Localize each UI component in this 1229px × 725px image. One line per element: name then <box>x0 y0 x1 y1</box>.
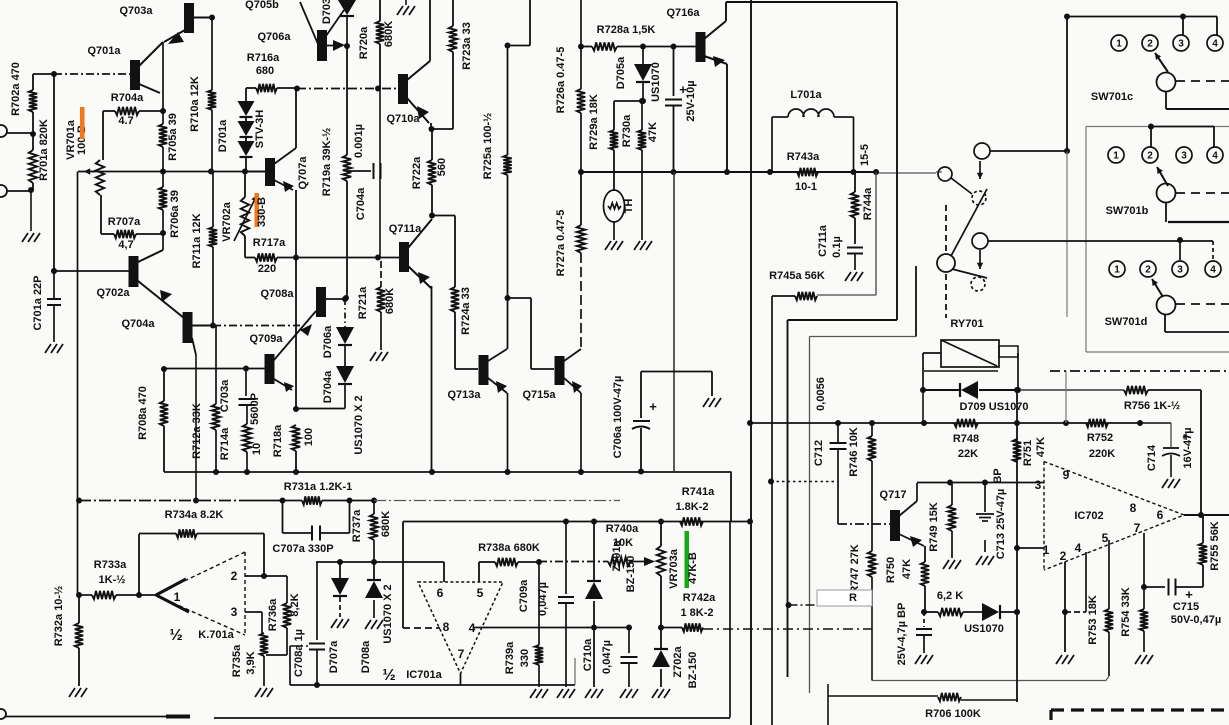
svg-text:D707a: D707a <box>328 640 340 673</box>
wire Q717 emitter <box>899 534 924 546</box>
svg-text:10K: 10K <box>613 537 633 549</box>
wire output <box>1198 512 1204 518</box>
svg-text:R705a 39: R705a 39 <box>167 113 179 161</box>
wire Q713a base <box>455 368 478 370</box>
svg-text:R736a: R736a <box>267 598 279 631</box>
wire pin8 dash <box>403 627 440 629</box>
wire SW701c top bracket <box>1067 16 1183 18</box>
svg-text:47K: 47K <box>901 559 913 579</box>
resistor R739a 330 <box>538 562 540 645</box>
svg-text:6: 6 <box>437 586 444 600</box>
resistor R751 47K <box>1013 439 1021 462</box>
resistor R753 18K <box>1108 540 1110 609</box>
zener Z702a BZ-150 <box>660 522 662 547</box>
wire TH to ground <box>613 222 615 240</box>
wire Q716a base <box>643 46 696 48</box>
resistor R754 33K <box>1143 533 1145 609</box>
wire Q707a emitter vertical <box>295 258 297 410</box>
wire R716a left corner <box>245 88 247 101</box>
svg-text:R753 18K: R753 18K <box>1087 595 1099 645</box>
svg-text:680: 680 <box>256 65 274 77</box>
wire light right edge <box>574 658 576 685</box>
wire Q717 collector <box>899 501 917 516</box>
svg-text:4: 4 <box>1075 541 1082 555</box>
svg-text:R742a: R742a <box>683 592 716 604</box>
svg-text:C707a 330P: C707a 330P <box>272 543 333 555</box>
arrow SW701b <box>1157 167 1168 186</box>
wire to ground <box>30 191 32 231</box>
svg-text:R727a 0.47-5: R727a 0.47-5 <box>555 210 567 277</box>
svg-text:R750: R750 <box>885 557 897 583</box>
wire Q713a emitter <box>488 378 507 393</box>
svg-text:R737a: R737a <box>351 509 363 542</box>
svg-text:C713 25V-47µ: C713 25V-47µ <box>995 489 1007 560</box>
svg-text:0.001µ: 0.001µ <box>353 124 365 158</box>
svg-text:SW701d: SW701d <box>1105 316 1148 328</box>
svg-text:R710a 12K: R710a 12K <box>189 76 201 132</box>
svg-text:BZ-150: BZ-150 <box>687 652 699 689</box>
potentiometer VR702a 330-B <box>241 197 249 236</box>
svg-text:US1070 X 2: US1070 X 2 <box>353 395 365 454</box>
ground <box>45 344 51 353</box>
wire Q703a collector <box>193 17 212 19</box>
contact 4 SW701b <box>1207 147 1223 163</box>
capacitor C710a 0.047u <box>628 628 630 654</box>
svg-text:R734a 8.2K: R734a 8.2K <box>165 509 224 521</box>
svg-text:D709 US1070: D709 US1070 <box>959 401 1028 413</box>
ground <box>69 688 75 697</box>
svg-text:10-1: 10-1 <box>795 181 817 193</box>
op-amp pin4 wire y=627 <box>473 627 629 629</box>
resistor R710a 12K <box>208 90 216 110</box>
svg-text:5: 5 <box>477 586 484 600</box>
svg-text:2: 2 <box>1060 549 1067 563</box>
wire Q704a emitter <box>192 338 196 355</box>
svg-text:Q702a: Q702a <box>96 287 130 299</box>
svg-text:R738a 680K: R738a 680K <box>478 542 540 554</box>
resistor R748 22K <box>954 419 978 427</box>
svg-text:3: 3 <box>231 605 238 619</box>
svg-text:C710a: C710a <box>582 638 594 671</box>
svg-text:SW701b: SW701b <box>1106 205 1149 217</box>
svg-text:1: 1 <box>174 590 181 604</box>
diode D705a US1070 <box>642 47 644 65</box>
wire R706a bottom <box>162 210 164 250</box>
svg-text:Q708a: Q708a <box>260 288 294 300</box>
svg-text:R721a: R721a <box>357 286 369 319</box>
svg-text:Q710a: Q710a <box>386 113 420 125</box>
wire pin7 <box>460 674 462 686</box>
ground <box>943 560 949 569</box>
capacitor C708a 1u <box>290 645 308 647</box>
wire R729a to TH <box>613 150 615 191</box>
resistor R744a 15-5 <box>873 169 879 175</box>
svg-text:R702a 470: R702a 470 <box>10 62 22 116</box>
resistor R706 100K <box>828 695 938 697</box>
resistor R723a 33 <box>452 0 454 26</box>
svg-text:R724a 33: R724a 33 <box>460 287 472 335</box>
wire SW701b top bracket <box>1148 124 1154 130</box>
svg-text:R745a 56K: R745a 56K <box>769 270 825 282</box>
wire D709 to R748 <box>922 390 924 423</box>
svg-text:R754 33K: R754 33K <box>1120 587 1132 637</box>
wire bus corner x731 <box>730 472 732 522</box>
svg-text:R720a: R720a <box>358 26 370 59</box>
wire y=423 rail <box>750 422 1171 424</box>
contact 3 SW701d <box>1172 261 1188 277</box>
svg-text:R743a: R743a <box>787 151 820 163</box>
contact blade c <box>951 178 972 194</box>
op-amp input arrow <box>156 579 186 595</box>
svg-text:100: 100 <box>303 428 315 446</box>
wire wiper rail <box>78 171 245 173</box>
wire Q702a base <box>54 270 129 272</box>
svg-text:680K: 680K <box>383 21 395 47</box>
svg-text:5: 5 <box>1102 531 1109 545</box>
selector SW701d <box>1157 296 1176 315</box>
svg-text:3: 3 <box>1181 151 1187 162</box>
thermistor TH <box>604 190 625 222</box>
svg-text:2: 2 <box>1145 265 1151 276</box>
svg-text:R740a: R740a <box>606 523 639 535</box>
wire rail y=500 right dash <box>374 500 620 502</box>
diode D709 US1070 <box>923 389 961 391</box>
svg-text:C704a: C704a <box>355 187 367 220</box>
wire R753 to rail <box>1106 676 1109 681</box>
svg-text:D704a: D704a <box>322 370 334 403</box>
svg-text:US1070: US1070 <box>964 623 1004 635</box>
svg-text:IC702: IC702 <box>1074 510 1103 522</box>
svg-text:Q709a: Q709a <box>249 333 283 345</box>
wire offset rail y=500 <box>79 500 245 502</box>
wire x1066 light vertical <box>1065 371 1067 423</box>
svg-text:R707a: R707a <box>108 216 141 228</box>
wire Q717 base <box>838 523 890 525</box>
wire y605 dash <box>789 604 873 606</box>
wire A2 rail <box>988 240 1180 242</box>
diode chain D701a STV-3H <box>238 101 255 116</box>
svg-text:2: 2 <box>1147 151 1153 162</box>
wire pin4 <box>1085 552 1087 612</box>
wire x872 down <box>871 605 873 681</box>
contact 1 SW701d <box>1109 261 1125 277</box>
wire box left edge <box>289 646 291 685</box>
contact 2 SW701d <box>1140 261 1156 277</box>
resistor R701a 820K <box>32 134 34 150</box>
svg-text:C701a 22P: C701a 22P <box>32 275 44 330</box>
svg-text:0.1µ: 0.1µ <box>831 236 843 258</box>
contact circle c-in <box>938 167 952 181</box>
ground <box>605 241 611 250</box>
ground <box>331 619 337 628</box>
selector SW701b <box>1157 184 1176 203</box>
label box R <box>817 590 872 606</box>
svg-text:47K-B: 47K-B <box>687 552 699 584</box>
ground <box>1162 479 1168 488</box>
wire Q702a emitter to Q704a <box>138 281 184 318</box>
wire switch input c <box>936 171 942 173</box>
diode D704a <box>344 346 346 366</box>
svg-text:Q716a: Q716a <box>666 7 700 19</box>
resistor R722a 560 <box>431 129 433 160</box>
resistor R755 56K <box>1202 515 1204 543</box>
blade up <box>951 189 987 256</box>
svg-text:2: 2 <box>231 569 238 583</box>
dashed vertical x946 <box>945 205 947 252</box>
svg-text:Z702a: Z702a <box>672 646 684 678</box>
wire input2 <box>6 190 31 192</box>
resistor R746 10K <box>871 423 873 436</box>
wire y680 light <box>872 680 1106 682</box>
svg-text:R708a 470: R708a 470 <box>137 386 149 440</box>
op-amp K701a triangle <box>155 552 245 635</box>
resistor R726a 0.47-5 <box>580 0 582 47</box>
potentiometer VR701a 100-B <box>96 160 104 195</box>
resistor R752 220K <box>1086 419 1108 427</box>
resistor R725a 100-1/2 <box>507 46 509 156</box>
svg-text:C715: C715 <box>1173 601 1199 613</box>
svg-text:Q711a: Q711a <box>389 223 422 235</box>
svg-text:220: 220 <box>258 263 276 275</box>
capacitor C703a 5600P <box>245 369 247 397</box>
svg-text:US1070 X 2: US1070 X 2 <box>382 584 394 643</box>
wire x1017 main vertical <box>1016 390 1018 702</box>
relay box bottom edge <box>924 370 998 372</box>
wire Q709a emitter <box>274 379 292 390</box>
contact 1 SW701c <box>1111 35 1127 51</box>
ground <box>634 241 640 250</box>
wire dotted y481 <box>771 481 838 483</box>
resistor R720a 680K <box>379 0 381 21</box>
wire relay left lead <box>923 352 941 354</box>
wire R710a top <box>211 18 213 91</box>
svg-text:4: 4 <box>1210 265 1216 276</box>
wire C706a ground branch <box>711 372 713 397</box>
svg-text:47K: 47K <box>647 122 659 142</box>
svg-text:RY701: RY701 <box>950 318 983 330</box>
wire R710a bottom <box>211 110 213 172</box>
contact circle A2 <box>972 233 988 249</box>
svg-text:8: 8 <box>443 620 450 634</box>
svg-text:R716a: R716a <box>247 52 280 64</box>
wire long vertical x788 <box>787 320 789 677</box>
svg-text:3: 3 <box>1035 478 1042 492</box>
wire input1 to R702a junction <box>6 132 33 134</box>
resistor R732a 10-1/2 <box>78 595 80 623</box>
svg-text:0,0056: 0,0056 <box>815 377 827 411</box>
capacitor C713 ground stubs <box>984 483 986 513</box>
op-amp IC701a triangle <box>418 582 503 674</box>
svg-text:4: 4 <box>1212 39 1218 50</box>
pot VR703a 47K-B <box>657 546 665 576</box>
svg-text:C706a 100V-47µ: C706a 100V-47µ <box>612 376 624 459</box>
feedback wire R734a <box>138 534 140 595</box>
svg-text:47K: 47K <box>1035 437 1047 457</box>
SW701b box outline <box>1086 126 1229 128</box>
main bus wire y=472 <box>164 471 731 473</box>
blade down <box>952 269 987 278</box>
svg-text:D706a: D706a <box>322 325 334 358</box>
resistor R706a 39 <box>159 187 167 210</box>
ground <box>652 689 658 698</box>
arrow A2 down <box>979 250 981 269</box>
svg-text:R729a 18K: R729a 18K <box>588 94 600 150</box>
capacitor C706a 100V-47u <box>641 371 712 373</box>
svg-text:R726a 0.47-5: R726a 0.47-5 <box>555 47 567 114</box>
contact 4 SW701d <box>1205 261 1221 277</box>
wire x1067 vertical <box>1066 17 1068 152</box>
svg-text:VR702a: VR702a <box>221 201 233 242</box>
input terminal J1 <box>0 125 7 137</box>
resistor R724a 33 <box>451 287 459 312</box>
svg-text:3: 3 <box>1178 39 1184 50</box>
resistor R747 27K <box>871 524 873 551</box>
wire pin2 <box>1064 562 1066 612</box>
wire Q711a emitter <box>408 266 431 288</box>
svg-text:R712a 33K: R712a 33K <box>191 403 203 459</box>
wire x1201 vertical <box>1200 390 1202 515</box>
capacitor C714 16V-47u <box>1140 422 1171 424</box>
svg-text:+: + <box>649 399 657 414</box>
wire SW701c down <box>1165 92 1167 110</box>
wire R720a to Q711a base vertical <box>379 89 381 258</box>
resistor R719a 39K-1/2 <box>346 46 348 155</box>
resistor R721a 680K <box>380 261 382 287</box>
resistor R727a 0.47-5 <box>580 172 582 225</box>
svg-text:3: 3 <box>1177 265 1183 276</box>
wiper arrow VR703a <box>644 557 655 566</box>
wire to pin2 <box>263 534 265 577</box>
svg-text:R725a 100-½: R725a 100-½ <box>482 113 494 180</box>
resistor R702a 470 <box>32 74 34 90</box>
svg-text:R755 56K: R755 56K <box>1209 521 1221 571</box>
svg-text:R730a: R730a <box>621 114 633 147</box>
resistor R729a 18K <box>610 130 618 150</box>
capacitor C715 50V-0.47u <box>1144 586 1165 588</box>
resistor R750 47K <box>924 546 926 562</box>
svg-text:L701a: L701a <box>790 89 822 101</box>
svg-text:4.7: 4.7 <box>118 115 133 127</box>
wire Q716a collector <box>704 21 726 39</box>
contact circle A1 <box>974 143 990 159</box>
pin3 wire <box>245 611 262 613</box>
svg-text:25V-4,7µ BP: 25V-4,7µ BP <box>896 603 908 666</box>
svg-text:½: ½ <box>382 667 395 684</box>
dot y423 x750 <box>747 420 753 426</box>
wire Q709a collector to Q708a base <box>274 311 316 360</box>
svg-text:½: ½ <box>169 627 182 644</box>
svg-text:10: 10 <box>251 443 263 455</box>
contact 2 SW701c <box>1142 35 1158 51</box>
wire diode chain bottom <box>344 385 346 409</box>
capacitor C707a 330P <box>280 498 286 504</box>
svg-text:0,047µ: 0,047µ <box>537 582 549 616</box>
wire top rail to switch <box>726 1 897 3</box>
wire diode rail y=562 <box>316 561 444 563</box>
arrow A1 down <box>979 161 981 179</box>
wire x403 vertical <box>402 522 404 629</box>
wire long vertical x751 <box>750 0 752 725</box>
svg-text:Q717: Q717 <box>880 489 907 501</box>
ground <box>703 398 709 407</box>
svg-text:R704a: R704a <box>111 92 144 104</box>
svg-text:+: + <box>1185 587 1193 602</box>
wire Q710a base rail <box>297 88 399 90</box>
svg-text:R706a 39: R706a 39 <box>169 190 181 238</box>
svg-text:R747 27K: R747 27K <box>849 544 861 594</box>
wire SW701c dashed out <box>1176 80 1229 82</box>
svg-text:220K: 220K <box>1089 448 1115 460</box>
ground <box>620 689 626 698</box>
svg-text:R722a: R722a <box>411 156 423 189</box>
svg-text:4,7: 4,7 <box>118 239 133 251</box>
diode D708a <box>373 562 375 581</box>
contact 3 SW701c <box>1173 35 1189 51</box>
wire Q713a collector vertical <box>507 298 509 349</box>
svg-text:3,9K: 3,9K <box>245 651 257 674</box>
svg-text:R739a: R739a <box>504 641 516 674</box>
dash-dot rail y371 <box>1050 370 1229 372</box>
svg-text:1.8K-2: 1.8K-2 <box>675 501 708 513</box>
wire SW701d down <box>1164 315 1166 333</box>
svg-text:R752: R752 <box>1087 432 1113 444</box>
svg-text:IC701a: IC701a <box>406 669 442 681</box>
svg-text:C712: C712 <box>813 440 825 466</box>
zener Z702a diode <box>660 628 662 651</box>
wire Q715a emitter <box>564 378 581 393</box>
svg-text:R749 15K: R749 15K <box>928 502 940 552</box>
svg-text:6: 6 <box>1157 508 1164 522</box>
ground <box>370 352 376 361</box>
svg-text:1 8K-2: 1 8K-2 <box>680 607 713 619</box>
svg-text:1K-½: 1K-½ <box>99 574 126 586</box>
svg-text:2: 2 <box>1147 39 1153 50</box>
svg-text:D708a: D708a <box>360 640 372 673</box>
resistor R718a 100 <box>292 425 300 451</box>
wire pin3 rail y=482 <box>917 482 1044 484</box>
svg-text:US1070: US1070 <box>650 62 662 102</box>
svg-text:TH: TH <box>623 199 635 214</box>
svg-text:9: 9 <box>1063 468 1070 482</box>
svg-text:R711a 12K: R711a 12K <box>191 213 203 268</box>
wire switch link x916 <box>915 266 917 337</box>
highlight orange mark VR701a <box>80 107 85 139</box>
ground <box>22 233 28 242</box>
svg-text:8,2K: 8,2K <box>289 593 301 616</box>
resistor R737a 680K <box>373 500 375 514</box>
wire R745a left vertical <box>771 296 773 725</box>
svg-text:R732a 10-½: R732a 10-½ <box>53 586 65 647</box>
resistor R749 15K <box>951 483 953 506</box>
wire SW701d dashed out <box>1176 303 1229 305</box>
svg-text:0,047µ: 0,047µ <box>601 640 613 674</box>
wire pin4-R742a rail y=627 dash <box>661 627 682 629</box>
wire VR701a bottom <box>100 195 102 234</box>
box bottom rail y=685 <box>290 684 575 686</box>
wire SW701b dashed out <box>1176 192 1229 194</box>
wire R745a right vertical <box>875 172 877 295</box>
contact 2 SW701b <box>1142 147 1158 163</box>
selector common C <box>937 254 955 272</box>
op-amp pin5 wire <box>478 562 480 582</box>
wire Q710a collector <box>429 0 431 61</box>
wire Q707a emitter <box>274 180 293 190</box>
svg-text:Q715a: Q715a <box>522 389 556 401</box>
wire R738a junction dash right <box>539 561 605 563</box>
node base wire corner <box>33 73 54 75</box>
capacitor C711a 0.1u <box>847 247 863 249</box>
svg-text:R756 1K-½: R756 1K-½ <box>1124 400 1180 412</box>
